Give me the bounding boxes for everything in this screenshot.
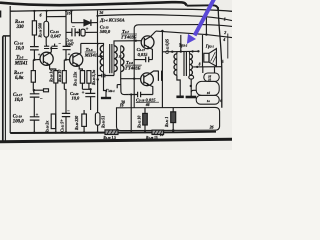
wire x131.2 down [130,95,132,133]
label bank2 Rb rotated [75,116,79,130]
left neighbor frame vertical 1 [2,36,4,141]
label C2-17 0,015 [137,47,149,57]
label 1 right edge [224,16,226,21]
label R2-17 6,8k [14,71,24,81]
wire x97.5 down [97,76,99,113]
label R2-31 rotated [165,117,169,127]
resistor R2-01 [32,21,36,35]
wire collector T2-5 up [50,47,52,53]
wire Tr2-1 tap [98,55,104,57]
label bank1 Ra rotated [50,70,54,82]
wire secondary a top to T2-7 base [114,41,141,46]
rail1 top supply wire [10,9,232,11]
svg-text:ГТ403Б: ГТ403Б [124,66,140,71]
minus sign x66 bottom cap [67,109,70,114]
capacitor C2-19 [30,117,40,120]
svg-text:R2-23 5,1к: R2-23 5,1к [92,70,96,85]
wire C2-16 to base node [33,50,35,60]
svg-text:Д2-4 КС156А: Д2-4 КС156А [99,18,124,23]
wire x66 lower to resistor [63,60,65,71]
label 1b rail x97.5 [99,11,104,15]
label R2-39 [103,136,116,140]
resistor bank2 Rc rounded [95,113,100,126]
wire cap b up [54,44,56,47]
wire base T2-6 [66,59,70,61]
label C2-17 10,0 [13,93,23,103]
plus sign C2-20 [82,91,85,96]
svg-text:8: 8 [199,62,201,66]
label Gn2-1 jack [105,88,115,93]
frame right vertical [218,7,222,108]
wire cap x66 bottom [65,104,67,133]
resistor bank1 Rd [87,71,91,84]
capacitor top pair b [52,46,58,48]
wire C2-19 bottom [33,120,35,133]
wire collector T2-7 [151,31,156,36]
node x143.6 rail [144,131,146,133]
wire speaker left vertical [202,35,204,67]
label T2-8 GT403B [124,60,140,71]
label R2-32 rotated [138,116,142,128]
wire x143.6 down [144,108,146,133]
label T2-6 MP41 [84,47,97,58]
node x97.5 y79.5 [97,78,99,80]
resistor bank1 Ra [54,71,58,83]
label 30 [120,101,125,105]
svg-text:C2-21 5: C2-21 5 [60,122,64,132]
capacitor top pair a [44,46,49,48]
label Tr2-2 [179,43,188,48]
node rail1 x46.6 [46,10,48,12]
label 2 right edge [223,30,226,35]
label C2-18 0,015 [136,97,156,102]
wire speaker bottom row [193,66,222,68]
svg-text:5: 5 [222,59,224,64]
wire emitter T2-8 down [150,85,153,94]
resistor bank1 Rc [80,71,84,84]
capacitor C2-17 [30,94,40,97]
wire collector to Tr2-1 primary [81,43,104,45]
wire collector T2-6 up [79,43,80,53]
svg-text:+: + [60,118,63,123]
svg-text:R2-16 560: R2-16 560 [39,23,43,38]
wire bank2 Rb [83,110,85,133]
label C2-19 100,0 [13,115,24,125]
transistor T2-5 [40,52,53,65]
svg-text:R2-31 1: R2-31 1 [165,117,169,127]
wire R2-01 bottom [33,35,35,46]
wire y51.5 row [162,50,198,53]
label bank2 Rc rotated [102,116,106,128]
wires bank1 bottoms [56,83,89,133]
Tr2-1 primary winding [100,45,103,71]
ground under Tr2-1 [101,97,111,99]
wire emitter T2-6 down [79,66,82,71]
label 1b rail1 x66 [67,12,72,16]
node x162.4 top [161,30,163,32]
label bank1 Rc rotated [73,72,77,86]
wire x227.8 right [227,34,229,59]
node after plates [76,31,78,33]
small component feedback [44,89,49,92]
electrolytic cap x66 bottom [62,113,70,116]
connector stadium S1 [204,73,219,81]
label C2-19 rotated mid [165,39,169,54]
node x97.5 rail2 [96,15,98,17]
resistor bank2 Ra [51,114,55,129]
svg-text:+: + [38,52,41,57]
ground left under Tr2-2 [176,96,183,99]
label 8 near speaker [199,62,201,66]
label bank2 Ra rotated [45,121,49,133]
wire primary bottom down [104,72,107,98]
svg-text:Т2-8: Т2-8 [126,60,133,65]
wire R2-01 top [33,11,35,21]
node x131.2 C2-18 wire [130,93,132,95]
label II winding [118,55,122,59]
node R2-17/C2-17 [33,89,35,91]
wire diode stub [71,11,73,23]
svg-text:10,0: 10,0 [16,46,25,51]
wire x66 upper [65,11,67,47]
frame top right segment [187,5,219,10]
wire T2-8 base corner down to C2-18 row [121,79,129,95]
loudspeaker Gr2-1 [204,49,217,67]
capacitor mid plates [146,57,149,63]
svg-text:МП41: МП41 [14,62,28,67]
transistor T2-8 [141,73,154,86]
node speaker bottom wire [196,66,198,68]
wire R2-16 top [46,11,48,21]
Tr2-2 winding baselines [177,54,190,75]
node base T2-6 [65,59,67,61]
bottom page border [0,139,232,141]
label S2 1b [207,91,211,95]
node rail x84 [83,131,85,133]
wire cap row y32.4 left [66,31,72,33]
wire C2-20 bottom [90,97,92,110]
svg-text:R2-21 22к: R2-21 22к [73,72,77,86]
wire stub speaker to S1 [202,67,204,73]
node rail x55.8 [55,131,57,133]
label S1 10 [208,78,212,82]
svg-text:МП41: МП41 [84,52,97,57]
capacitor on x66 [63,46,71,49]
wire C2-17 to C2-19 [33,97,35,117]
svg-text:6,8к: 6,8к [15,76,24,81]
wire long vertical x162.4 [161,31,163,108]
svg-text:1: 1 [224,16,226,21]
node rail x97.6 [96,131,98,133]
node stem x191.2 [190,85,192,87]
svg-text:R2-29 220: R2-29 220 [75,116,79,130]
left neighbor frame vertical 2 [4,37,6,142]
label Gr2-1 [205,44,215,49]
node rail x66 [65,131,67,133]
wire Tr2-2 right bottom to ground [190,75,192,96]
tick b top-left [40,13,42,17]
node collector T2-5 [50,47,52,49]
label C2-20 10,0 [70,91,80,101]
resistor dark R2-32 [143,113,148,125]
svg-text:1б: 1б [207,91,211,95]
svg-text:0,047: 0,047 [66,42,74,46]
label I winding [96,43,99,47]
label 1b window bottom left [160,133,164,137]
svg-text:−: − [40,97,43,102]
node x206.4 [205,33,207,35]
svg-text:R2-30 51: R2-30 51 [102,116,106,128]
rail2 second supply wire [98,15,233,21]
resistor R2-16 [44,21,49,37]
label R2-16 rotated [39,23,43,38]
label R2-01 330 [15,20,24,30]
transistor T2-7 [141,36,154,49]
svg-text:б: б [40,13,42,17]
transistor T2-6 [70,53,83,66]
wire x206.4 to rail2 [205,15,207,35]
plus sign C2-19 [36,112,39,117]
plus sign C2-16 [38,52,41,57]
wire y75.5 segments [98,75,115,77]
fraction bar T2-8 [125,64,142,66]
diode D2-4 [72,20,98,26]
wire secondary a bottom [113,72,115,76]
plus sign x66 cap [68,52,71,57]
svg-text:II: II [118,55,122,59]
label 1b window [120,103,124,107]
minus sign cap row [72,25,75,30]
label bank2 col2 rotated [60,122,64,132]
Tr2-2 core [184,52,186,76]
annotation arrow blue [187,0,215,44]
capacitor C2-18 [138,92,141,97]
svg-text:1б: 1б [120,103,124,107]
label C2-16 10,0 [14,42,24,52]
capacitor C2-20 [85,93,95,96]
wire C2-18 row [128,94,153,96]
Tr2-1 secondary winding b [121,46,124,72]
label 4b window [145,103,150,107]
svg-text:−: − [67,109,70,114]
Tr2-1 tap node [100,55,102,57]
label D2-4 KC156A [99,18,124,23]
wire Tr2-2 right top stub [189,51,191,53]
wire x171.2 down [172,108,174,131]
wire x97.5 vertical [97,11,99,76]
node base T2-5 [33,59,35,61]
svg-text:4: 4 [222,37,225,42]
fraction bar T2-6 [85,51,96,53]
inner frame left edge [9,6,11,133]
label 2b [209,126,215,130]
transformer Tr2-2 [174,52,192,76]
plus sign x66 bottom cap [60,118,63,123]
node y51.5 x192.6 [191,50,193,52]
node x206.4 rail2 [205,14,207,16]
svg-text:R2-39 1,5: R2-39 1,5 [103,136,116,140]
wire cylinder to x97.5 [85,31,97,33]
fraction bar T2-5 [15,59,28,61]
Tr2-1 core [110,44,112,73]
wire output top [156,31,232,37]
wire R2-17 bottom [33,82,34,94]
wire emitter T2-7 down [150,48,152,59]
label 5 right edge [222,59,224,64]
svg-text:R2-18 1к: R2-18 1к [50,70,54,82]
svg-text:R2-19 10: R2-19 10 [58,70,62,82]
wire x66 mid join [64,89,66,104]
rail2 left segment wire [47,16,67,18]
resistor dark R2-31 [171,112,176,123]
wire R2-16 bottom [45,37,47,46]
plus sign cap row [86,28,89,33]
window box bottom right [117,107,220,130]
svg-text:580,0: 580,0 [100,29,111,34]
Tr2-2 winding left [174,54,177,75]
svg-text:R2-26 2к: R2-26 2к [45,121,49,133]
connector stadium S3 [196,95,219,104]
svg-text:+: + [82,91,85,96]
svg-text:Т2-7: Т2-7 [122,29,129,34]
label T2-5 MP41 [14,56,28,67]
transformer Tr2-1 [100,44,124,73]
Tr2-1 winding baselines [104,45,121,71]
svg-text:+: + [36,112,39,117]
capacitor C2-16 [30,47,39,50]
node y51.5 x180.8 [180,50,182,52]
node rail1 x66 [65,10,67,12]
Tr2-2 winding right [190,54,193,75]
label C2-1b under caps [66,39,74,47]
wire x66 to T2-6 base node [65,50,67,60]
wire x180.8 down from output top [180,35,182,52]
node C2-20 [89,88,91,90]
wire bars pair right of T2-8 [158,71,161,81]
node enclosure base wire [135,40,137,42]
svg-text:+: + [86,28,89,33]
label S3 1v [207,99,211,103]
wire Tr2-2 left bottom to ground [177,75,180,97]
node x171.2 window bottom [172,129,175,132]
fraction bar T2-7 [121,33,137,35]
resistor hatched on rail left [105,130,118,135]
wire plates to cylinder [75,31,79,33]
ground right under Tr2-2 [186,96,197,99]
node y51.5 x172.3 [171,51,173,53]
label 4 right edge [222,37,225,42]
enclosure box output stage [134,25,232,108]
capacitor plates x72/75 [72,28,75,36]
Tr2-1 secondary winding a [114,46,117,72]
svg-text:100,0: 100,0 [13,119,24,124]
label T2-7 GT403B [120,29,136,40]
left neighbor frame stub [3,35,10,37]
label b right edge [220,98,223,103]
svg-text:Т2-6: Т2-6 [86,47,93,52]
svg-text:−: − [72,25,75,30]
svg-text:10,0: 10,0 [15,98,24,103]
minus sign x66 cap [58,41,61,46]
label C2-13 580,0 [100,25,111,35]
svg-text:0,015: 0,015 [138,52,149,57]
node x131.2 rail [130,131,132,133]
lamp oval on stem [189,75,194,79]
svg-text:10,0: 10,0 [72,95,80,100]
svg-text:330: 330 [16,25,25,30]
wire R2-17 from base node down [32,60,34,71]
left edge stray mark [0,11,2,18]
jack contact marks [117,85,121,89]
electrolytic cylinder C2-13 [79,29,85,36]
label S1 1b [208,74,212,78]
resistor bank2 Rb [82,114,87,126]
svg-text:2: 2 [223,30,226,35]
inner frame bottom rail (thick common rail) [10,132,216,133]
wire stem branch into S2 [191,90,196,92]
wire collector T2-8 up [150,71,158,74]
svg-text:R2-32 10: R2-32 10 [138,116,142,128]
connector stadium S2 [196,81,219,95]
wire stub x214.5 to S1 [214,67,216,73]
svg-text:4б: 4б [145,103,150,107]
wire feedback right [34,89,44,91]
resistor bank1 Rb [62,71,66,83]
wire cap mid [134,59,152,61]
wire emitter T2-5 down [50,65,56,71]
svg-text:0,047: 0,047 [51,34,62,39]
node C2-19 rail [33,132,35,134]
resistor R2-17 [31,71,35,83]
label bank1 Rb rotated [58,70,62,82]
svg-text:Гн2-1: Гн2-1 [105,88,115,93]
node rail1 x71.5 [70,10,72,12]
svg-text:−: − [58,41,61,46]
wire C2-20 node [82,89,90,93]
wire bank2 Rc bottom [97,125,99,132]
minus sign C2-17 [40,97,43,102]
label bank1 Rd rotated [92,70,96,85]
label R2-38 [146,136,158,140]
underline C2-18 [136,101,159,103]
wire Tr2-2 left top stub [176,52,178,54]
node rail1 x34.4 [33,10,35,12]
svg-text:ГТ403Б: ГТ403Б [120,35,136,40]
svg-text:R2-38 15: R2-38 15 [146,136,158,140]
node T2-8 base wire [133,78,135,80]
svg-text:C2-18 0,015: C2-18 0,015 [136,97,156,102]
wire x124.6 down [124,108,126,132]
wire secondary b bottom to T2-8 base [121,72,141,79]
top page border [0,2,187,6]
capacitor on y75.5 [102,74,105,78]
resistor hatched on rail right [152,130,164,134]
svg-text:Тр2-2: Тр2-2 [179,43,188,48]
label C2-15 0,047 [50,29,62,39]
wire base T2-5 [34,58,40,60]
node y51.5 x198.4 [197,50,199,52]
